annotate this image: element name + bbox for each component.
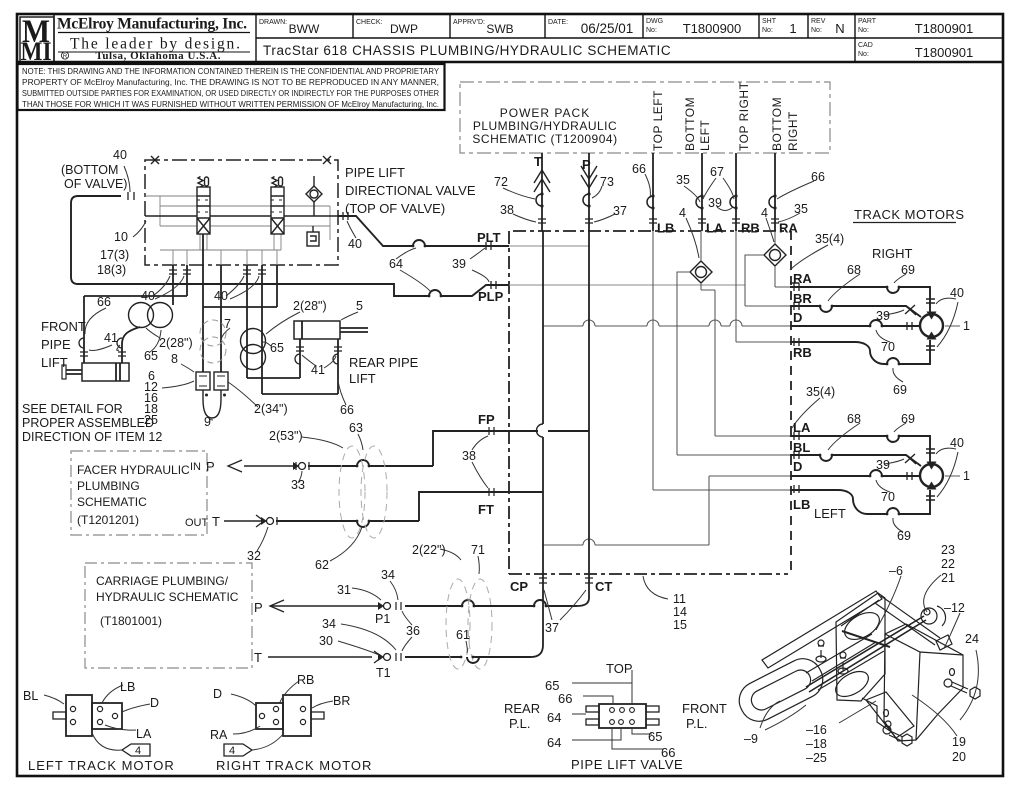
svg-text:LIFT: LIFT bbox=[349, 371, 376, 386]
svg-text:37: 37 bbox=[613, 204, 627, 218]
svg-text:PLUMBING/HYDRAULIC: PLUMBING/HYDRAULIC bbox=[473, 119, 617, 133]
svg-text:D: D bbox=[150, 696, 159, 710]
svg-text:2(28"): 2(28") bbox=[293, 299, 327, 313]
svg-text:39: 39 bbox=[452, 257, 466, 271]
svg-text:32: 32 bbox=[247, 549, 261, 563]
svg-text:2(34"): 2(34") bbox=[254, 402, 288, 416]
svg-text:DIRECTION OF ITEM 12: DIRECTION OF ITEM 12 bbox=[22, 430, 162, 444]
svg-text:4: 4 bbox=[229, 745, 235, 757]
svg-text:LEFT: LEFT bbox=[698, 119, 712, 151]
svg-text:65: 65 bbox=[270, 341, 284, 355]
svg-text:P: P bbox=[254, 600, 263, 615]
svg-text:72: 72 bbox=[494, 175, 508, 189]
svg-text:40: 40 bbox=[950, 286, 964, 300]
svg-text:TRACK MOTORS: TRACK MOTORS bbox=[854, 207, 965, 222]
svg-text:FRONT: FRONT bbox=[682, 701, 727, 716]
svg-text:(BOTTOM: (BOTTOM bbox=[61, 163, 118, 177]
svg-text:LEFT TRACK MOTOR: LEFT TRACK MOTOR bbox=[28, 758, 175, 773]
svg-text:31: 31 bbox=[337, 583, 351, 597]
svg-text:–12: –12 bbox=[944, 601, 965, 615]
svg-text:14: 14 bbox=[673, 605, 687, 619]
svg-text:34: 34 bbox=[381, 568, 395, 582]
svg-text:–18: –18 bbox=[806, 737, 827, 751]
svg-text:24: 24 bbox=[965, 632, 979, 646]
svg-text:34: 34 bbox=[322, 617, 336, 631]
svg-text:06/25/01: 06/25/01 bbox=[581, 21, 634, 36]
svg-text:71: 71 bbox=[471, 543, 485, 557]
svg-text:39: 39 bbox=[876, 309, 890, 323]
svg-text:D: D bbox=[213, 687, 222, 701]
svg-text:No:: No: bbox=[762, 27, 773, 34]
svg-text:–25: –25 bbox=[806, 751, 827, 765]
svg-text:MI: MI bbox=[21, 37, 52, 66]
svg-text:APPRV'D:: APPRV'D: bbox=[453, 19, 485, 26]
svg-text:TracStar 618 CHASSIS PLUMBING/: TracStar 618 CHASSIS PLUMBING/HYDRAULIC … bbox=[263, 43, 671, 58]
svg-text:T: T bbox=[254, 650, 262, 665]
svg-text:PLUMBING: PLUMBING bbox=[77, 479, 140, 493]
svg-text:RIGHT: RIGHT bbox=[872, 246, 913, 261]
svg-text:63: 63 bbox=[349, 421, 363, 435]
svg-text:No:: No: bbox=[858, 51, 869, 58]
svg-text:33: 33 bbox=[291, 478, 305, 492]
svg-text:BR: BR bbox=[333, 694, 350, 708]
svg-text:40: 40 bbox=[214, 289, 228, 303]
svg-text:DWP: DWP bbox=[390, 22, 418, 36]
svg-text:68: 68 bbox=[847, 263, 861, 277]
svg-text:IN: IN bbox=[190, 461, 201, 473]
svg-text:T: T bbox=[534, 154, 542, 169]
svg-text:22: 22 bbox=[941, 557, 955, 571]
svg-text:30: 30 bbox=[319, 634, 333, 648]
svg-text:21: 21 bbox=[941, 571, 955, 585]
svg-text:40: 40 bbox=[950, 436, 964, 450]
svg-text:CP: CP bbox=[510, 579, 528, 594]
svg-text:LIFT: LIFT bbox=[41, 355, 68, 370]
svg-text:P: P bbox=[582, 157, 591, 172]
svg-text:REAR PIPE: REAR PIPE bbox=[349, 355, 419, 370]
svg-text:39: 39 bbox=[708, 196, 722, 210]
svg-text:19: 19 bbox=[952, 735, 966, 749]
svg-text:SCHEMATIC: SCHEMATIC bbox=[77, 495, 147, 509]
svg-text:20: 20 bbox=[952, 750, 966, 764]
svg-text:15: 15 bbox=[673, 618, 687, 632]
svg-text:D: D bbox=[793, 459, 802, 474]
svg-text:69: 69 bbox=[901, 263, 915, 277]
svg-text:(TOP OF VALVE): (TOP OF VALVE) bbox=[345, 201, 445, 216]
svg-text:LB: LB bbox=[793, 497, 810, 512]
svg-text:–6: –6 bbox=[889, 564, 903, 578]
svg-text:CARRIAGE PLUMBING/: CARRIAGE PLUMBING/ bbox=[96, 574, 229, 588]
svg-text:N: N bbox=[835, 21, 844, 36]
svg-text:FRONT: FRONT bbox=[41, 319, 86, 334]
svg-text:69: 69 bbox=[893, 383, 907, 397]
svg-text:FT: FT bbox=[478, 502, 494, 517]
svg-text:SEE DETAIL FOR: SEE DETAIL FOR bbox=[22, 402, 123, 416]
svg-text:62: 62 bbox=[315, 558, 329, 572]
svg-text:1: 1 bbox=[963, 469, 970, 483]
svg-text:BOTTOM: BOTTOM bbox=[683, 97, 697, 151]
svg-text:9: 9 bbox=[204, 415, 211, 429]
svg-text:CAD: CAD bbox=[858, 42, 873, 49]
svg-text:T1800900: T1800900 bbox=[683, 21, 742, 36]
svg-text:41: 41 bbox=[104, 331, 118, 345]
svg-text:RIGHT: RIGHT bbox=[786, 111, 800, 151]
svg-text:T: T bbox=[212, 514, 220, 529]
svg-text:P.L.: P.L. bbox=[509, 716, 530, 731]
svg-text:1: 1 bbox=[963, 319, 970, 333]
svg-text:(T1801001): (T1801001) bbox=[100, 614, 162, 628]
svg-text:OUT: OUT bbox=[185, 517, 209, 529]
svg-text:SWB: SWB bbox=[486, 22, 513, 36]
svg-text:HYDRAULIC SCHEMATIC: HYDRAULIC SCHEMATIC bbox=[96, 590, 239, 604]
svg-text:66: 66 bbox=[632, 162, 646, 176]
svg-text:35: 35 bbox=[794, 202, 808, 216]
svg-text:37: 37 bbox=[545, 621, 559, 635]
svg-text:DIRECTIONAL VALVE: DIRECTIONAL VALVE bbox=[345, 183, 476, 198]
svg-text:38: 38 bbox=[462, 449, 476, 463]
svg-text:DWG: DWG bbox=[646, 18, 663, 25]
svg-text:DRAWN:: DRAWN: bbox=[259, 19, 287, 26]
svg-text:THAN THOSE FOR WHICH IT WAS FU: THAN THOSE FOR WHICH IT WAS FURNISHED WI… bbox=[22, 100, 439, 109]
svg-text:67: 67 bbox=[710, 165, 724, 179]
svg-text:LA: LA bbox=[706, 221, 724, 236]
svg-text:17(3): 17(3) bbox=[100, 248, 129, 262]
svg-text:40: 40 bbox=[113, 148, 127, 162]
svg-text:T1800901: T1800901 bbox=[915, 45, 974, 60]
svg-text:PART: PART bbox=[858, 18, 877, 25]
svg-text:PLT: PLT bbox=[477, 230, 501, 245]
svg-text:T1: T1 bbox=[376, 666, 391, 680]
svg-text:73: 73 bbox=[600, 175, 614, 189]
svg-text:36: 36 bbox=[406, 624, 420, 638]
svg-text:35: 35 bbox=[676, 173, 690, 187]
svg-text:39: 39 bbox=[876, 458, 890, 472]
svg-text:66: 66 bbox=[661, 745, 675, 760]
svg-text:64: 64 bbox=[547, 735, 561, 750]
svg-text:BR: BR bbox=[793, 291, 812, 306]
svg-text:POWER PACK: POWER PACK bbox=[500, 106, 590, 120]
svg-text:SUBMITTED OUTSIDE PARTIES FOR: SUBMITTED OUTSIDE PARTIES FOR EXAMINATIO… bbox=[22, 89, 439, 98]
svg-text:RA: RA bbox=[779, 221, 798, 236]
svg-text:61: 61 bbox=[456, 628, 470, 642]
svg-text:70: 70 bbox=[881, 490, 895, 504]
svg-text:RB: RB bbox=[741, 221, 760, 236]
svg-text:2(28"): 2(28") bbox=[159, 336, 193, 350]
svg-text:TOP RIGHT: TOP RIGHT bbox=[737, 81, 751, 151]
svg-text:BOTTOM: BOTTOM bbox=[770, 97, 784, 151]
svg-text:NOTE: THIS DRAWING AND THE INF: NOTE: THIS DRAWING AND THE INFORMATION C… bbox=[22, 67, 440, 76]
svg-text:OF VALVE): OF VALVE) bbox=[64, 177, 127, 191]
svg-text:D: D bbox=[793, 310, 802, 325]
svg-text:Tulsa, Oklahoma U.S.A.: Tulsa, Oklahoma U.S.A. bbox=[96, 50, 221, 62]
svg-text:2(53"): 2(53") bbox=[269, 429, 303, 443]
svg-text:PROPER ASSEMBLED: PROPER ASSEMBLED bbox=[22, 416, 154, 430]
svg-text:RB: RB bbox=[793, 345, 812, 360]
svg-text:40: 40 bbox=[348, 237, 362, 251]
svg-text:35(4): 35(4) bbox=[815, 232, 844, 246]
svg-text:LB: LB bbox=[657, 221, 674, 236]
svg-text:18(3): 18(3) bbox=[97, 263, 126, 277]
svg-text:35(4): 35(4) bbox=[806, 385, 835, 399]
svg-text:4: 4 bbox=[761, 206, 768, 220]
svg-text:–16: –16 bbox=[806, 723, 827, 737]
svg-text:LEFT: LEFT bbox=[814, 506, 846, 521]
svg-text:REV: REV bbox=[811, 18, 826, 25]
svg-text:PIPE: PIPE bbox=[41, 337, 71, 352]
svg-text:SCHEMATIC (T1200904): SCHEMATIC (T1200904) bbox=[472, 132, 617, 146]
svg-text:PIPE LIFT: PIPE LIFT bbox=[345, 165, 405, 180]
svg-text:7: 7 bbox=[224, 317, 231, 331]
svg-text:66: 66 bbox=[97, 295, 111, 309]
svg-text:1: 1 bbox=[789, 21, 796, 36]
svg-text:PLP: PLP bbox=[478, 289, 504, 304]
svg-text:69: 69 bbox=[897, 529, 911, 543]
svg-text:23: 23 bbox=[941, 543, 955, 557]
svg-text:5: 5 bbox=[356, 299, 363, 313]
svg-text:68: 68 bbox=[847, 412, 861, 426]
svg-text:McElroy Manufacturing, Inc.: McElroy Manufacturing, Inc. bbox=[57, 16, 247, 33]
svg-text:RB: RB bbox=[297, 673, 314, 687]
svg-text:FACER HYDRAULIC: FACER HYDRAULIC bbox=[77, 463, 190, 477]
svg-text:BL: BL bbox=[793, 440, 810, 455]
svg-text:BL: BL bbox=[23, 689, 38, 703]
svg-text:RA: RA bbox=[793, 271, 812, 286]
svg-text:4: 4 bbox=[135, 745, 141, 757]
svg-text:RA: RA bbox=[210, 728, 228, 742]
svg-text:10: 10 bbox=[114, 230, 128, 244]
svg-text:8: 8 bbox=[171, 352, 178, 366]
svg-text:PROPERTY OF McElroy Manufactur: PROPERTY OF McElroy Manufacturing, Inc. … bbox=[22, 78, 439, 87]
svg-text:RIGHT TRACK MOTOR: RIGHT TRACK MOTOR bbox=[216, 758, 372, 773]
svg-text:P.L.: P.L. bbox=[686, 716, 707, 731]
svg-text:66: 66 bbox=[811, 170, 825, 184]
svg-text:(T1201201): (T1201201) bbox=[77, 513, 139, 527]
svg-text:2(22"): 2(22") bbox=[412, 543, 446, 557]
svg-text:CHECK:: CHECK: bbox=[356, 19, 383, 26]
svg-text:–9: –9 bbox=[744, 732, 758, 746]
svg-text:41: 41 bbox=[311, 363, 325, 377]
svg-text:No:: No: bbox=[858, 27, 869, 34]
svg-text:LA: LA bbox=[793, 420, 811, 435]
svg-text:65: 65 bbox=[144, 349, 158, 363]
svg-text:TOP LEFT: TOP LEFT bbox=[651, 90, 665, 151]
svg-text:No:: No: bbox=[646, 27, 657, 34]
svg-text:69: 69 bbox=[901, 412, 915, 426]
svg-text:66: 66 bbox=[558, 691, 572, 706]
svg-text:38: 38 bbox=[500, 203, 514, 217]
svg-text:66: 66 bbox=[340, 403, 354, 417]
svg-text:P: P bbox=[206, 459, 215, 474]
svg-text:FP: FP bbox=[478, 412, 495, 427]
svg-text:40: 40 bbox=[141, 289, 155, 303]
svg-text:R: R bbox=[63, 54, 68, 60]
svg-text:11: 11 bbox=[673, 592, 686, 606]
svg-text:64: 64 bbox=[389, 257, 403, 271]
svg-text:No:: No: bbox=[811, 27, 822, 34]
svg-text:65: 65 bbox=[648, 729, 662, 744]
svg-text:T1800901: T1800901 bbox=[915, 21, 974, 36]
svg-text:64: 64 bbox=[547, 710, 561, 725]
svg-text:SHT: SHT bbox=[762, 18, 777, 25]
svg-text:DATE:: DATE: bbox=[548, 19, 568, 26]
svg-text:LB: LB bbox=[120, 680, 135, 694]
svg-text:P1: P1 bbox=[375, 612, 390, 626]
svg-text:LA: LA bbox=[136, 727, 152, 741]
svg-text:REAR: REAR bbox=[504, 701, 540, 716]
svg-text:4: 4 bbox=[679, 206, 686, 220]
svg-text:BWW: BWW bbox=[289, 22, 320, 36]
svg-text:CT: CT bbox=[595, 579, 612, 594]
svg-text:TOP: TOP bbox=[606, 661, 633, 676]
svg-text:70: 70 bbox=[881, 340, 895, 354]
